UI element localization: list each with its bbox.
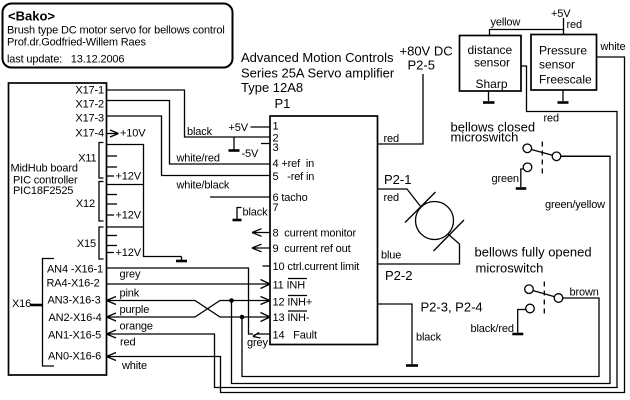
wire black X17-1 to P1 pin2 xyxy=(107,90,271,138)
svg-text:X12: X12 xyxy=(76,198,95,210)
svg-text:11 INH: 11 INH xyxy=(273,280,306,292)
svg-text:8 current monitor: 8 current monitor xyxy=(273,228,357,240)
svg-text:Pressure: Pressure xyxy=(539,44,587,58)
svg-text:black: black xyxy=(243,207,269,219)
svg-text:orange: orange xyxy=(120,321,153,333)
svg-text:red: red xyxy=(384,192,399,204)
svg-text:13 INH-: 13 INH- xyxy=(273,312,310,324)
svg-text:red: red xyxy=(544,113,559,125)
svg-text:red: red xyxy=(384,133,399,145)
svg-text:Series 25A Servo amplifier: Series 25A Servo amplifier xyxy=(241,66,395,81)
ground of +12V bus xyxy=(176,257,187,262)
svg-text:P2-1: P2-1 xyxy=(384,172,411,187)
connector X15 bracket xyxy=(77,227,104,259)
svg-text:bellows fully opened: bellows fully opened xyxy=(475,245,592,260)
distance sensor box xyxy=(460,36,522,92)
wire grey AN4 to pin 14 xyxy=(107,268,254,334)
svg-text:PIC18F2525: PIC18F2525 xyxy=(13,185,73,197)
node +80V DC xyxy=(400,44,453,73)
+12V label X15 xyxy=(107,247,142,259)
wire P2-2 blue from motor xyxy=(378,234,460,283)
svg-text:brown: brown xyxy=(570,287,599,299)
connector X11 bracket xyxy=(78,143,103,179)
svg-text:-5V: -5V xyxy=(242,148,259,160)
svg-text:AN0-X16-6: AN0-X16-6 xyxy=(48,351,101,363)
arrow pin 8 out xyxy=(252,229,270,237)
+12V label X11 xyxy=(107,171,142,183)
svg-text:+80V DC: +80V DC xyxy=(400,44,453,59)
svg-text:last update: 13.12.2006: last update: 13.12.2006 xyxy=(7,54,124,66)
PIC controller box U1 MidHub xyxy=(9,83,107,375)
pin 13 INH- xyxy=(273,311,310,324)
pin 12 INH+ xyxy=(273,296,313,309)
servo amplifier heading xyxy=(241,50,395,95)
wire brown pin13 to opened microswitch xyxy=(242,298,599,377)
svg-text:white: white xyxy=(121,360,147,372)
svg-text:MidHub board: MidHub board xyxy=(11,163,78,175)
ground tacho black at pin 7 xyxy=(233,207,269,221)
junction dot on pin 12 wire xyxy=(229,298,234,303)
svg-text:X17-2: X17-2 xyxy=(75,99,104,111)
node +5V to pin1 xyxy=(229,122,271,134)
junction dot on pin 13 wire xyxy=(240,315,245,320)
svg-text:Advanced Motion Controls: Advanced Motion Controls xyxy=(241,50,394,65)
arrow pin 14 Fault out xyxy=(247,333,270,350)
wire purple AN3 to pin 13 xyxy=(107,297,271,322)
svg-text:+12V: +12V xyxy=(116,210,142,222)
svg-text:Prof.dr.Godfried-Willem Raes: Prof.dr.Godfried-Willem Raes xyxy=(7,37,146,49)
svg-text:X15: X15 xyxy=(77,238,96,250)
svg-text:pink: pink xyxy=(120,288,140,300)
wire pink RA4 to pin 11 xyxy=(107,280,271,300)
svg-text:X11: X11 xyxy=(78,153,96,165)
op-amp box U2 servo amplifier P1 xyxy=(270,116,378,345)
ground P2-3 P2-4 xyxy=(406,364,418,367)
svg-text:X17-1: X17-1 xyxy=(75,85,104,97)
motor M1 xyxy=(405,192,464,251)
svg-text:white: white xyxy=(600,41,626,53)
svg-text:blue: blue xyxy=(381,250,401,262)
svg-text:black/red: black/red xyxy=(471,323,514,335)
switch S2 contacts xyxy=(525,282,563,316)
pressure sensor box xyxy=(531,35,597,91)
title box xyxy=(3,4,233,68)
svg-text:X17-4: X17-4 xyxy=(75,128,104,140)
pin 11 INH xyxy=(273,279,308,292)
svg-text:white/black: white/black xyxy=(176,180,230,192)
svg-text:7: 7 xyxy=(273,202,279,214)
svg-text:P2-2: P2-2 xyxy=(385,268,412,283)
wire white AN0 to pressure sensor xyxy=(107,57,625,393)
wire green/yellow pin12 to closed microswitch xyxy=(232,156,611,383)
svg-text:P2-5: P2-5 xyxy=(408,58,435,73)
ground distance sensor xyxy=(483,91,495,103)
svg-text:1: 1 xyxy=(273,121,279,133)
svg-text:red: red xyxy=(567,19,582,31)
svg-text:+12V: +12V xyxy=(116,171,142,183)
svg-text:14 Fault: 14 Fault xyxy=(273,330,317,342)
wire P2-1 red to motor xyxy=(378,172,422,207)
svg-text:AN3-X16-3: AN3-X16-3 xyxy=(48,295,101,307)
svg-text:AN4 -X16-1: AN4 -X16-1 xyxy=(47,264,103,276)
svg-text:+12V: +12V xyxy=(116,247,142,259)
wire red AN1 to distance sensor xyxy=(107,66,618,388)
svg-text:RA4-X16-2: RA4-X16-2 xyxy=(47,278,100,290)
connector X16 bracket xyxy=(12,259,54,367)
svg-text:P2-3, P2-4: P2-3, P2-4 xyxy=(421,300,483,315)
wire black/red to ground S2 xyxy=(471,310,526,336)
svg-text:3: 3 xyxy=(273,142,279,154)
svg-text:AN2-X16-4: AN2-X16-4 xyxy=(49,312,102,324)
svg-text:microswitch: microswitch xyxy=(451,130,519,145)
wire yellow +5V to sensors xyxy=(490,8,582,36)
connector X12 bracket xyxy=(76,182,104,222)
svg-text:green: green xyxy=(492,173,519,185)
svg-text:9 current ref out: 9 current ref out xyxy=(273,243,351,255)
svg-text:black: black xyxy=(416,332,442,344)
svg-text:<Bako>: <Bako> xyxy=(8,9,55,24)
wire white/red X17-2 to P1 pin4 xyxy=(107,101,271,165)
bellows fully opened microswitch S2 xyxy=(475,245,592,276)
svg-text:Freescale: Freescale xyxy=(539,73,592,87)
svg-text:red: red xyxy=(120,337,135,349)
ground pressure sensor xyxy=(558,90,569,103)
X11 pin stubs xyxy=(107,156,118,167)
svg-text:5 -ref in: 5 -ref in xyxy=(273,171,315,183)
wire tacho stub pin 6 xyxy=(210,196,270,198)
svg-text:+10V: +10V xyxy=(120,128,146,140)
+12V bus xyxy=(107,145,182,257)
wire pin 10 stub xyxy=(263,265,271,267)
svg-text:Brush type DC motor servo for: Brush type DC motor servo for bellows co… xyxy=(7,25,225,37)
ground on +5V line with -5V label xyxy=(229,137,259,160)
wire green to ground S1 xyxy=(492,169,527,189)
wire white/black X17-3 to P1 pin5 xyxy=(107,116,271,192)
svg-text:P1: P1 xyxy=(275,96,291,111)
svg-text:purple: purple xyxy=(120,304,150,316)
svg-text:sensor: sensor xyxy=(539,58,575,72)
svg-text:+5V: +5V xyxy=(229,122,249,134)
svg-text:yellow: yellow xyxy=(491,17,521,29)
svg-text:4 +ref in: 4 +ref in xyxy=(273,158,315,170)
wire black P2-3 P2-4 to ground xyxy=(378,300,483,365)
svg-text:microswitch: microswitch xyxy=(476,261,544,276)
svg-text:white/red: white/red xyxy=(176,153,220,165)
wire orange AN2 to pin 12 xyxy=(107,297,271,333)
X12 pin stubs xyxy=(107,195,118,205)
svg-text:green/yellow: green/yellow xyxy=(545,199,605,211)
X15 pin stubs xyxy=(107,236,118,246)
svg-text:10 ctrl.current limit: 10 ctrl.current limit xyxy=(273,261,360,273)
svg-text:Type 12A8: Type 12A8 xyxy=(241,80,303,95)
wire pin3 stub xyxy=(261,143,270,145)
+12V label X12 xyxy=(107,210,142,222)
svg-text:grey: grey xyxy=(120,269,141,281)
bellows closed microswitch S1 xyxy=(451,120,536,145)
svg-text:Sharp: Sharp xyxy=(476,77,508,91)
svg-text:sensor: sensor xyxy=(474,56,510,70)
arrow pin 9 out xyxy=(252,244,270,252)
switch S1 contacts xyxy=(523,142,610,175)
svg-text:X16: X16 xyxy=(12,298,31,310)
svg-text:AN1-X16-5: AN1-X16-5 xyxy=(48,330,101,342)
svg-text:black: black xyxy=(187,126,213,138)
wire +80V P2-5 red xyxy=(378,74,424,145)
svg-text:12 INH+: 12 INH+ xyxy=(273,297,313,309)
svg-text:X17-3: X17-3 xyxy=(75,113,104,125)
arrow +10V on X17-4 xyxy=(107,128,147,140)
svg-text:grey: grey xyxy=(247,337,268,349)
